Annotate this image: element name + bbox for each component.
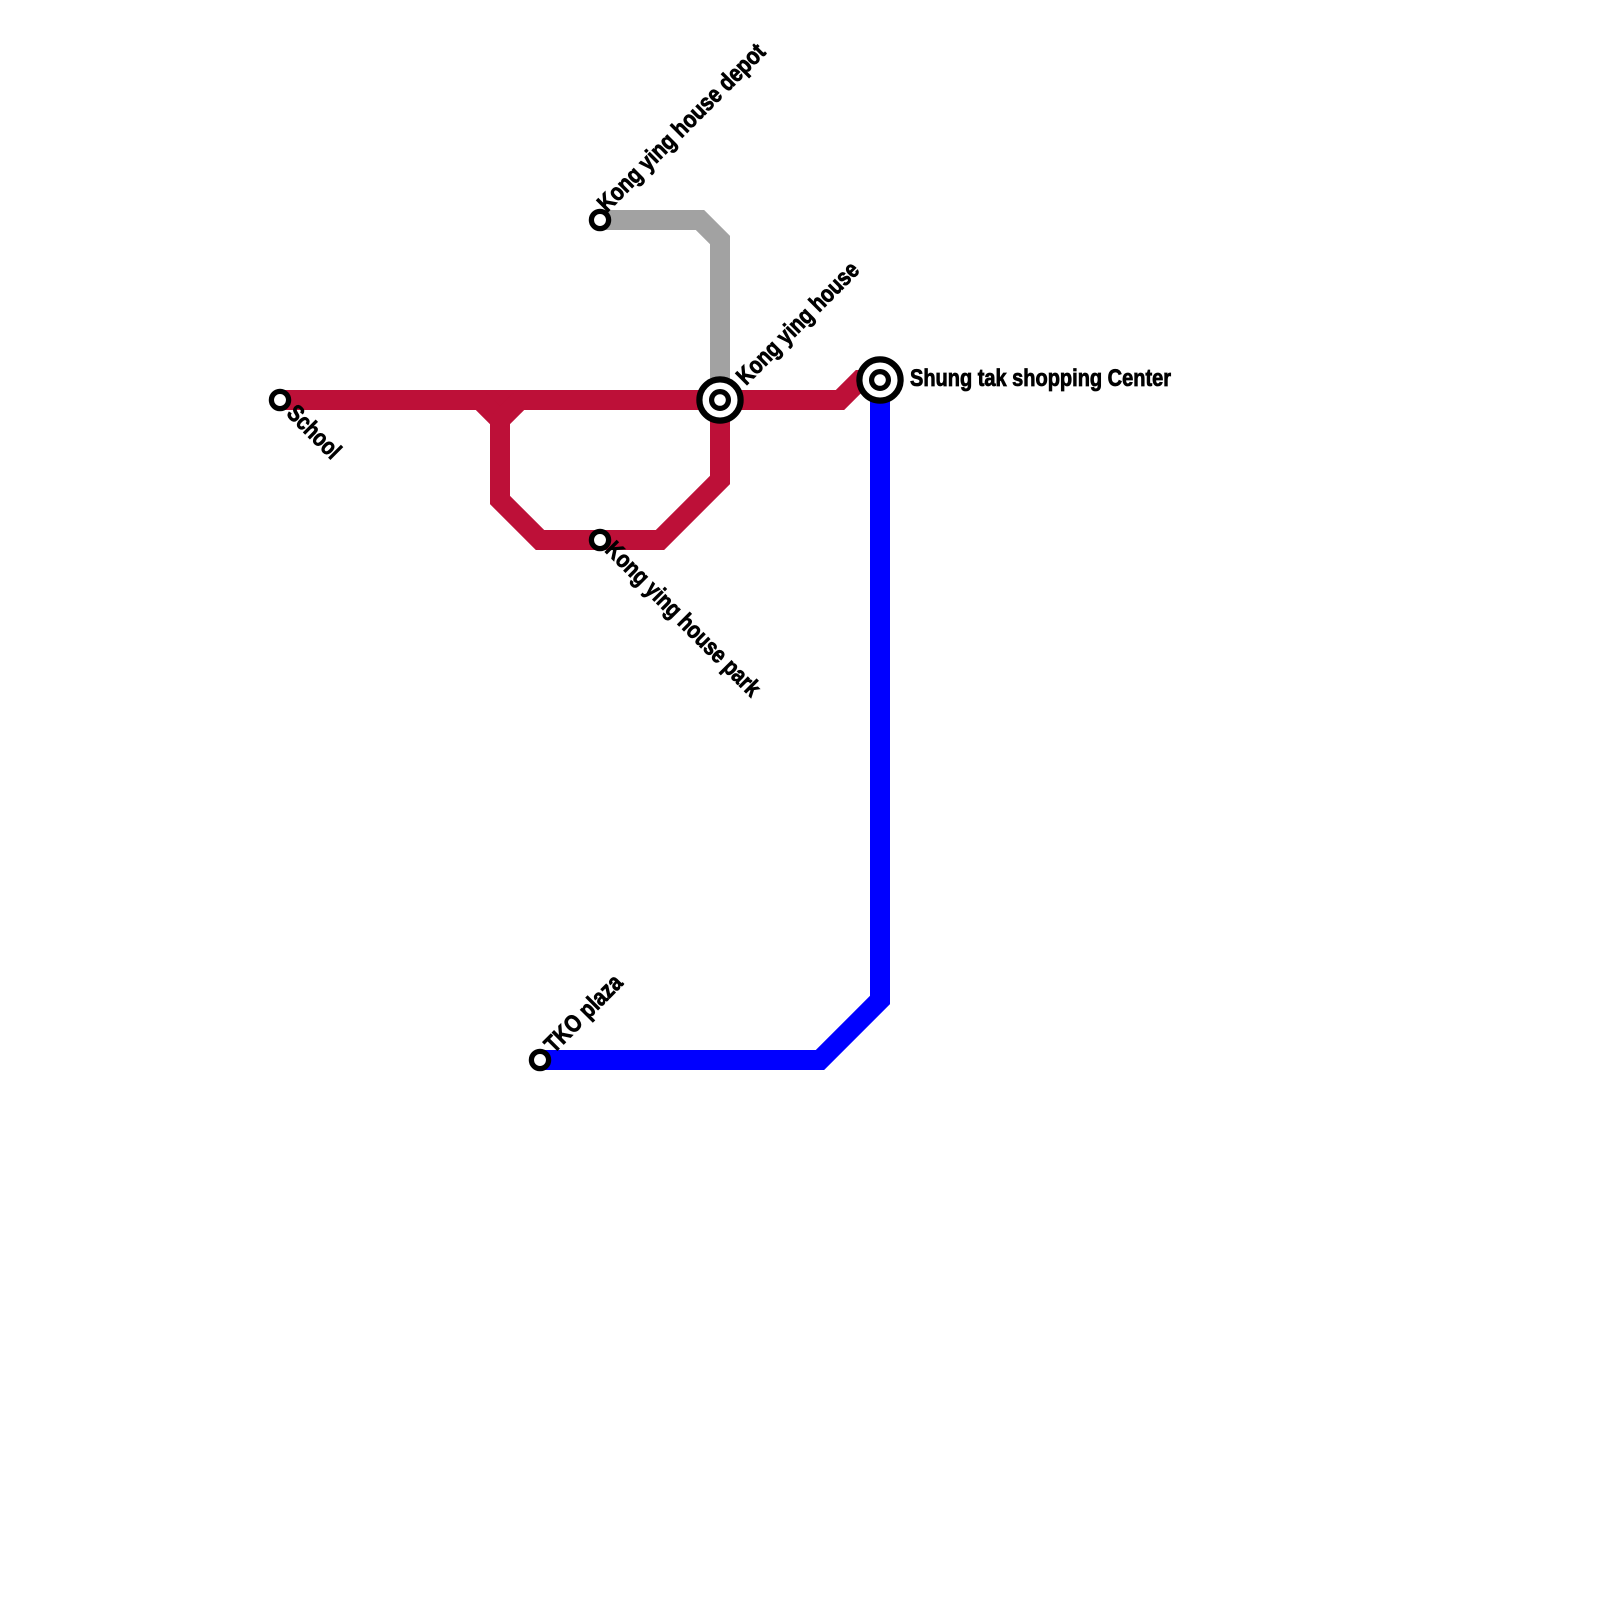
node TKO plaza station: [531, 1051, 548, 1068]
wire red main line: School to Shung tak shopping Center: [280, 380, 880, 400]
node School station: [271, 391, 288, 408]
svg-text:Shung tak shopping Center: Shung tak shopping Center: [910, 365, 1171, 392]
node Shung tak shopping Center interchange: [859, 359, 900, 400]
node Kong ying house depot station: [591, 211, 608, 228]
wire red loop branch via Kong ying house park: [480, 400, 720, 540]
wire red loop stub junction: [500, 400, 520, 420]
wire blue line: Shung tak shopping Center to TKO plaza: [540, 380, 880, 1060]
node Kong ying house interchange: [699, 379, 740, 420]
node Kong ying house park station: [591, 531, 608, 548]
wire gray line: Kong ying house depot to Kong ying house: [600, 220, 720, 400]
